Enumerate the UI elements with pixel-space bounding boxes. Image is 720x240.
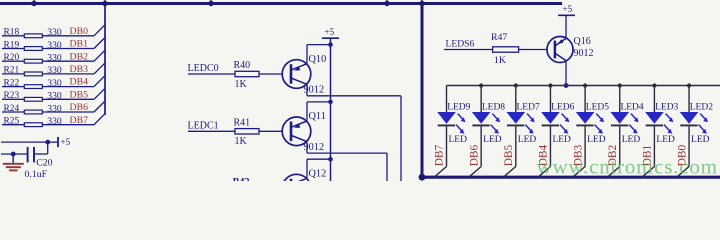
node A junction on top bus <box>31 0 36 6</box>
svg-text:R20: R20 <box>4 53 20 63</box>
wire LED4 cathode <box>619 126 621 166</box>
svg-text:LED: LED <box>587 135 606 145</box>
LED LED8 emission arrows <box>491 114 500 134</box>
wire LED8 to bottom bus <box>469 167 481 177</box>
wire LED7 anode <box>515 86 517 113</box>
label LED3 <box>655 103 678 113</box>
net label DB5 (rotated) <box>503 144 515 166</box>
transistor Q16 9012 PNP <box>547 37 573 63</box>
value 0.1uF <box>25 169 48 180</box>
wire top power bus <box>0 2 562 5</box>
wire LED9 cathode <box>446 126 448 166</box>
LED LED6 diode symbol <box>541 112 560 125</box>
wire to +5 (bottom left) <box>1 140 58 145</box>
LED LED6 emission arrows <box>560 114 569 134</box>
value 330 of R25 <box>47 116 62 127</box>
svg-text:LED3: LED3 <box>655 103 678 113</box>
net label DB0 (rotated) <box>676 144 688 166</box>
svg-text:DB7: DB7 <box>70 115 89 126</box>
label R41 <box>234 118 251 129</box>
part label LED of LED2 <box>691 135 710 145</box>
label R47 <box>491 32 507 43</box>
svg-text:LED: LED <box>656 135 675 145</box>
svg-text:DB4: DB4 <box>70 77 89 88</box>
net label DB5 <box>70 89 89 100</box>
wire LED2 anode <box>688 86 690 113</box>
LED LED3 emission arrows <box>664 114 673 134</box>
net label DB1 <box>70 39 89 50</box>
node F junction bottom-left <box>419 174 426 181</box>
label Q16 <box>574 36 591 47</box>
svg-text:330: 330 <box>47 103 62 114</box>
svg-text:+5: +5 <box>563 4 573 14</box>
svg-text:DB2: DB2 <box>70 51 89 62</box>
value 1K of R47 <box>494 55 506 66</box>
svg-text:LED: LED <box>449 135 468 145</box>
LED LED3 diode symbol <box>645 112 664 125</box>
svg-text:0.1uF: 0.1uF <box>25 169 48 180</box>
resistor R18 with wires <box>2 25 105 38</box>
wire LED8 cathode <box>480 126 482 166</box>
label R22 <box>4 78 20 88</box>
svg-text:LED: LED <box>518 135 537 145</box>
resistor R24 with wires <box>2 101 105 114</box>
LED LED4 emission arrows <box>629 114 638 134</box>
value 330 of R18 <box>47 27 62 38</box>
label Q10 <box>309 54 327 65</box>
wire Q11 emitter to +5 rail <box>307 100 333 121</box>
label LED4 <box>620 103 643 113</box>
value 330 of R19 <box>47 40 62 51</box>
resistor R19 with wires <box>2 38 105 51</box>
svg-text:DB3: DB3 <box>70 64 89 75</box>
svg-text:R21: R21 <box>4 66 20 76</box>
value 330 of R21 <box>47 65 62 76</box>
svg-text:R22: R22 <box>4 78 20 88</box>
wire Q16 collector to LED rail <box>564 61 569 88</box>
wire LED6 to bottom bus <box>538 167 550 177</box>
label R42 (clipped at bottom) <box>233 177 250 188</box>
transistor Q11 9012 PNP <box>282 117 311 146</box>
LED LED9 emission arrows <box>456 114 465 134</box>
svg-text:DB7: DB7 <box>434 144 446 166</box>
wire LED anode rail <box>447 85 720 87</box>
LED LED8 diode symbol <box>472 112 491 125</box>
svg-text:LED2: LED2 <box>690 103 713 113</box>
part label LED of LED4 <box>622 135 641 145</box>
power +5 symbol (top right) <box>558 4 575 15</box>
svg-text:330: 330 <box>47 78 62 89</box>
wire LED8 anode <box>480 86 482 113</box>
svg-text:R42: R42 <box>233 177 250 181</box>
svg-text:Q11: Q11 <box>309 111 326 122</box>
wire Q16 emitter to +5 <box>565 15 567 38</box>
svg-text:LEDC1: LEDC1 <box>188 120 219 131</box>
wire LED4 anode <box>619 86 621 113</box>
svg-text:1K: 1K <box>494 55 506 66</box>
wire LED7 to bottom bus <box>504 167 516 177</box>
value 330 of R24 <box>47 103 62 114</box>
net label DB3 <box>70 64 89 75</box>
svg-text:Q16: Q16 <box>574 36 591 47</box>
svg-text:LED5: LED5 <box>586 103 609 113</box>
label R42 (clipped at bottom) <box>233 177 250 188</box>
label Q12 <box>309 168 327 179</box>
svg-text:LED4: LED4 <box>620 103 643 113</box>
svg-text:330: 330 <box>47 53 62 64</box>
node rail junction LED4 <box>618 83 622 87</box>
node B junction on top bus <box>102 0 107 6</box>
net label DB6 (rotated) <box>468 144 480 166</box>
svg-text:330: 330 <box>47 65 62 76</box>
svg-text:R23: R23 <box>4 91 20 101</box>
wire LED9 to bottom bus <box>435 167 447 177</box>
label R24 <box>4 104 20 114</box>
wire LED7 cathode <box>515 126 517 166</box>
wire LED6 cathode <box>549 126 551 166</box>
value 9012 of Q16 <box>574 48 594 59</box>
label R20 <box>4 53 20 63</box>
svg-text:1K: 1K <box>235 79 248 90</box>
wire R41 to Q11 base <box>259 130 282 132</box>
svg-text:330: 330 <box>47 91 62 102</box>
LED LED9 diode symbol <box>437 112 456 125</box>
node rail junction LED7 <box>514 83 518 87</box>
label LED6 <box>551 103 574 113</box>
wire R40 to Q10 base <box>259 73 282 75</box>
value 1K of R41 <box>235 136 248 147</box>
wire LED2 to bottom bus <box>677 167 689 177</box>
label R19 <box>4 40 20 50</box>
svg-text:330: 330 <box>47 40 62 51</box>
node rail junction LED2 <box>687 83 691 87</box>
wire LEDC1 to R41 <box>188 130 235 132</box>
part label LED of LED5 <box>587 135 606 145</box>
node E junction on top bus <box>419 0 424 6</box>
net label DB2 <box>70 51 89 62</box>
wire LEDS6 to R47 <box>444 49 493 51</box>
resistor R47 <box>493 47 519 52</box>
resistor R23 with wires <box>2 88 105 101</box>
svg-text:DB1: DB1 <box>70 39 89 50</box>
net label LEDS6 <box>446 38 475 49</box>
LED LED2 emission arrows <box>699 114 708 134</box>
svg-text:LED: LED <box>552 135 571 145</box>
svg-text:R25: R25 <box>4 117 20 127</box>
svg-text:Q12: Q12 <box>309 168 327 179</box>
ground <box>3 154 24 170</box>
label LED8 <box>482 103 505 113</box>
LED LED7 emission arrows <box>525 114 534 134</box>
svg-text:LED9: LED9 <box>447 103 470 113</box>
node rail junction LED6 <box>548 83 552 87</box>
svg-text:LED6: LED6 <box>551 103 574 113</box>
power +5 symbol (bottom left) <box>58 137 71 147</box>
svg-text:R19: R19 <box>4 40 20 50</box>
node C junction on top bus <box>208 0 213 6</box>
label R23 <box>4 91 20 101</box>
svg-text:DB5: DB5 <box>70 89 89 100</box>
svg-text:LED8: LED8 <box>482 103 505 113</box>
wire R47 to Q16 base <box>519 49 548 51</box>
wire Q10 emitter to +5 rail <box>307 42 333 63</box>
value 1K of R40 <box>235 79 248 90</box>
wire Q12 emitter to +5 rail <box>307 157 333 178</box>
LED LED7 diode symbol <box>507 112 526 125</box>
wire LED4 to bottom bus <box>608 167 620 177</box>
label LED7 <box>517 103 540 113</box>
svg-text:+5: +5 <box>61 137 71 147</box>
LED LED2 diode symbol <box>680 112 699 125</box>
wire capacitor left branch <box>1 152 27 157</box>
net label DB7 <box>70 115 89 126</box>
wire LEDC0 to R40 <box>188 73 235 75</box>
svg-text:9012: 9012 <box>574 48 594 59</box>
wire Q10 collector run <box>307 84 401 181</box>
node rail junction LED3 <box>652 83 656 87</box>
svg-text:LED7: LED7 <box>517 103 540 113</box>
net label DB3 (rotated) <box>572 144 584 166</box>
svg-text:DB6: DB6 <box>468 144 480 166</box>
net label LEDC1 <box>188 120 219 131</box>
svg-text:R18: R18 <box>4 28 20 38</box>
value 330 of R23 <box>47 91 62 102</box>
wire Q11 collector run <box>307 142 387 181</box>
part label LED of LED7 <box>518 135 537 145</box>
value 9012 of Q11 <box>304 142 325 153</box>
net label DB4 <box>70 77 89 88</box>
wire capacitor top branch <box>35 142 48 154</box>
LED LED4 diode symbol <box>610 112 629 125</box>
svg-text:C20: C20 <box>36 157 52 168</box>
net label DB4 (rotated) <box>538 144 550 166</box>
svg-text:330: 330 <box>47 116 62 127</box>
svg-text:+5: +5 <box>325 27 335 37</box>
part label LED of LED8 <box>483 135 502 145</box>
wire left vertical bus of LED array <box>421 4 424 178</box>
net label DB7 (rotated) <box>434 144 446 166</box>
LED LED5 emission arrows <box>595 114 604 134</box>
svg-text:R40: R40 <box>234 60 251 71</box>
svg-text:R24: R24 <box>4 104 20 114</box>
svg-text:DB0: DB0 <box>70 26 89 37</box>
resistor R22 with wires <box>2 76 105 89</box>
svg-text:LED: LED <box>483 135 502 145</box>
svg-text:LEDS6: LEDS6 <box>446 38 475 49</box>
resistor R41 <box>235 129 259 134</box>
transistor Q12 9012 PNP <box>282 174 311 203</box>
value 9012 of Q12 <box>304 199 325 210</box>
svg-text:www.cntronics.com: www.cntronics.com <box>537 155 718 179</box>
wire LED9 anode <box>446 86 448 113</box>
wire bottom cathode bus <box>421 176 720 179</box>
part label LED of LED3 <box>656 135 675 145</box>
wire LED5 to bottom bus <box>573 167 585 177</box>
svg-text:LED: LED <box>622 135 641 145</box>
resistor R20 with wires <box>2 50 105 63</box>
resistor R25 with wires <box>2 114 105 127</box>
svg-text:1K: 1K <box>235 136 248 147</box>
svg-text:330: 330 <box>47 27 62 38</box>
svg-text:DB6: DB6 <box>70 102 89 113</box>
part label LED of LED9 <box>449 135 468 145</box>
value 330 of R20 <box>47 53 62 64</box>
svg-text:R41: R41 <box>234 118 251 129</box>
label R25 <box>4 117 20 127</box>
watermark www.cntronics.com <box>537 155 718 179</box>
label Q11 <box>309 111 326 122</box>
resistor R21 with wires <box>2 63 105 76</box>
wire LED5 cathode <box>584 126 586 166</box>
wire LED6 anode <box>549 86 551 113</box>
svg-text:R47: R47 <box>491 32 507 43</box>
wire LED5 anode <box>584 86 586 113</box>
svg-text:LEDC0: LEDC0 <box>188 63 219 74</box>
wire resistor ladder vertical bus <box>104 4 106 116</box>
LED LED5 diode symbol <box>576 112 595 125</box>
svg-text:DB5: DB5 <box>503 144 515 166</box>
label R40 <box>234 60 251 71</box>
wire +5 emitter rail <box>330 38 332 181</box>
svg-text:LED: LED <box>691 135 710 145</box>
label LED9 <box>447 103 470 113</box>
net label DB2 (rotated) <box>607 144 619 166</box>
net label DB6 <box>70 102 89 113</box>
wire LED3 cathode <box>653 126 655 166</box>
net label DB0 <box>70 26 89 37</box>
svg-text:Q10: Q10 <box>309 54 327 65</box>
net label DB1 (rotated) <box>642 144 654 166</box>
node rail junction LED5 <box>583 83 587 87</box>
capacitor C20 <box>28 147 34 163</box>
label LED5 <box>586 103 609 113</box>
label R21 <box>4 66 20 76</box>
label C20 <box>36 157 52 168</box>
power +5 symbol (above Q10) <box>322 27 339 38</box>
value 330 of R22 <box>47 78 62 89</box>
resistor R40 <box>235 71 259 76</box>
wire LED3 anode <box>653 86 655 113</box>
label R18 <box>4 28 20 38</box>
part label LED of LED6 <box>552 135 571 145</box>
label LED2 <box>690 103 713 113</box>
transistor Q10 9012 PNP <box>282 60 311 89</box>
wire LED3 to bottom bus <box>642 167 654 177</box>
node D junction on top bus <box>384 0 389 6</box>
net label LEDC0 <box>188 63 219 74</box>
node rail junction LED8 <box>479 83 483 87</box>
wire LED2 cathode <box>688 126 690 166</box>
value 9012 of Q10 <box>304 85 325 96</box>
